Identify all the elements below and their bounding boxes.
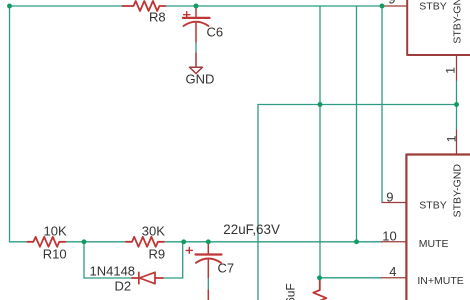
op-amp/IC U2 box bottom right bbox=[406, 155, 470, 300]
resistor R10 bbox=[27, 237, 65, 247]
wire MUTE net junction B to pin10 stub bbox=[184, 241, 382, 243]
svg-text:R10: R10 bbox=[43, 247, 67, 262]
wire top net from left corner to R8 bbox=[10, 5, 128, 7]
pin 4 stub IC2 bbox=[382, 277, 407, 279]
pin 1 stub IC2 bbox=[456, 130, 458, 155]
node pin4 junction bbox=[317, 275, 322, 280]
C6 plus sign bbox=[184, 12, 190, 18]
svg-text:10: 10 bbox=[382, 228, 396, 243]
svg-text:10K: 10K bbox=[44, 223, 67, 238]
node C7 top bbox=[206, 239, 211, 244]
node top-left corner bbox=[7, 4, 12, 9]
C7 plus sign bbox=[186, 248, 192, 254]
wire vertical x=356.5 from top net to MUTE net bbox=[356, 6, 358, 242]
wire junction A to R9 left bbox=[84, 241, 126, 243]
wire D2 branch left vertical bbox=[83, 242, 85, 278]
diode D2 bbox=[132, 272, 163, 283]
svg-text:9: 9 bbox=[388, 0, 395, 7]
svg-text:56uF: 56uF bbox=[283, 283, 297, 300]
wire vertical x=320 from top net to pin4 junction bbox=[319, 6, 321, 278]
wire R8 right to junction at C6 and on to pin-9 junction bbox=[166, 5, 383, 7]
svg-text:1N4148: 1N4148 bbox=[90, 264, 136, 279]
node mid net x=456.5 bbox=[454, 102, 459, 107]
svg-text:STBY: STBY bbox=[419, 1, 446, 13]
svg-text:R9: R9 bbox=[149, 247, 166, 262]
svg-text:MUTE: MUTE bbox=[419, 238, 449, 250]
resistor R8 bbox=[123, 1, 166, 11]
svg-text:22uF,63V: 22uF,63V bbox=[223, 222, 280, 237]
wire pin1 vertical between ICs bbox=[456, 80, 458, 130]
capacitor C7 bbox=[196, 242, 222, 278]
wire pin4 net junction to stub bbox=[320, 277, 382, 279]
wire vertical x=258 down to bottom edge bbox=[257, 105, 259, 300]
wire C6 lead middle bbox=[195, 42, 197, 53]
wire R10 right to junction A bbox=[65, 241, 84, 243]
svg-text:STBY-GND: STBY-GND bbox=[452, 0, 464, 44]
pin 9 stub IC2 bbox=[382, 202, 406, 204]
wire D2 branch bottom left bbox=[84, 277, 132, 279]
wire from left rail to R10 bbox=[10, 241, 28, 243]
svg-text:GND: GND bbox=[186, 72, 215, 87]
resistor R9 bbox=[126, 237, 164, 247]
resistor vertical below pin4 junction bbox=[313, 278, 326, 300]
svg-text:D2: D2 bbox=[115, 279, 132, 294]
svg-text:IN+MUTE: IN+MUTE bbox=[417, 275, 463, 287]
svg-text:1: 1 bbox=[444, 67, 458, 74]
op-amp/IC U1 box top right bbox=[407, 0, 470, 55]
node C6 top bbox=[194, 4, 199, 9]
svg-text:30K: 30K bbox=[142, 223, 165, 238]
svg-text:STBY-GND: STBY-GND bbox=[452, 164, 464, 218]
node A (R10 right) bbox=[82, 239, 87, 244]
svg-text:C7: C7 bbox=[218, 260, 235, 275]
node MUTE x=356.5 bbox=[354, 239, 359, 244]
node B (R9 right) bbox=[181, 239, 186, 244]
svg-text:1: 1 bbox=[445, 135, 459, 142]
node mid net x=320 bbox=[318, 102, 323, 107]
pin 9 stub IC1 bbox=[382, 5, 407, 7]
wire C7 bottom to edge bbox=[207, 278, 209, 291]
wire mid horizontal net y=104.5 bbox=[258, 104, 457, 106]
node pin9 top bbox=[380, 4, 385, 9]
svg-text:C6: C6 bbox=[207, 25, 224, 40]
pin 1 stub IC1 bbox=[456, 55, 458, 80]
pin 10 stub IC2 bbox=[382, 241, 407, 243]
wire vertical x=382 from pin9 junction down to IC2 pin9 bbox=[381, 6, 383, 203]
svg-text:4: 4 bbox=[389, 264, 396, 279]
ground symbol GND bbox=[190, 53, 203, 74]
wire left vertical rail bbox=[9, 6, 11, 242]
capacitor C6 bbox=[183, 6, 210, 42]
svg-text:STBY: STBY bbox=[419, 200, 446, 212]
wire D2 branch bottom right bbox=[163, 277, 183, 279]
wire D2 branch right vertical bbox=[182, 242, 184, 278]
wire R9 right to junction B bbox=[164, 241, 184, 243]
off-screen component lead below C7 bbox=[207, 290, 209, 300]
svg-text:R8: R8 bbox=[149, 10, 166, 25]
svg-text:9: 9 bbox=[386, 190, 393, 205]
